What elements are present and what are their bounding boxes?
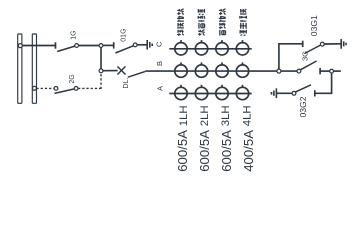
CT 1LH phase C bbox=[175, 43, 187, 55]
earthing switch 03G2 contact bar bbox=[314, 90, 316, 96]
phase line C bbox=[169, 48, 251, 50]
CT 2LH phase A bbox=[195, 87, 207, 99]
disconnector 3G hinge circle bbox=[297, 69, 301, 73]
column label (celiang biaoji) col4 bbox=[240, 9, 247, 36]
wire node to DL bbox=[103, 70, 118, 72]
ground symbol (03G1) bbox=[340, 39, 342, 49]
wire junction to 3G bbox=[281, 70, 297, 72]
breaker DL blade bbox=[128, 71, 146, 77]
disconnector 2G left circle bbox=[54, 87, 58, 91]
svg-text:B: B bbox=[155, 61, 164, 66]
svg-text:600/5A: 600/5A bbox=[219, 130, 234, 172]
svg-text:C: C bbox=[155, 41, 164, 47]
CT 1LH phase B bbox=[175, 65, 187, 77]
svg-text:3LH: 3LH bbox=[220, 105, 232, 126]
earthing switch 03G1 hinge circle bbox=[320, 42, 324, 46]
svg-text:A: A bbox=[156, 86, 165, 91]
disconnector 2G blade bbox=[55, 89, 75, 94]
CT 1LH phase A bbox=[175, 87, 187, 99]
wire ground to 03G2 bbox=[277, 92, 293, 94]
svg-text:1LH: 1LH bbox=[178, 105, 190, 126]
phase line B bbox=[145, 70, 277, 72]
svg-text:2LH: 2LH bbox=[199, 105, 211, 126]
earthing switch 01G blade bbox=[115, 46, 133, 53]
svg-text:4LH: 4LH bbox=[241, 105, 253, 126]
wire 3G to line exit node bbox=[320, 70, 330, 72]
CT 4LH phase A bbox=[236, 87, 248, 99]
line exit stub bbox=[334, 70, 341, 72]
CT 2LH phase C bbox=[195, 43, 207, 55]
disconnector 1G hinge circle bbox=[75, 44, 79, 48]
column label (muxian baohu) col3 bbox=[219, 9, 226, 36]
node on busbar II bbox=[32, 86, 36, 90]
disconnector 1G contact bar bbox=[55, 42, 57, 48]
CT 3LH phase A bbox=[216, 87, 228, 99]
junction node circle bbox=[99, 44, 103, 48]
wire junction down to breaker node bbox=[100, 47, 102, 69]
dashed wire 2G to corner bbox=[78, 87, 102, 89]
wire 03G1 to ground bbox=[324, 43, 341, 45]
wire 01G to ground bbox=[137, 44, 147, 46]
disconnector 1G blade bbox=[57, 46, 75, 52]
svg-text:03G1: 03G1 bbox=[309, 15, 319, 36]
node circle above DL bbox=[99, 69, 103, 73]
svg-text:2G: 2G bbox=[69, 74, 76, 83]
earthing switch 03G1 contact bar bbox=[302, 41, 304, 47]
wire junction to 01G bbox=[103, 44, 114, 46]
earthing switch 03G2 hinge circle bbox=[292, 91, 296, 95]
column label (guzhang lubo) col2 bbox=[198, 9, 205, 36]
wire busbar I to 1G bbox=[21, 45, 56, 47]
phase line A bbox=[169, 93, 251, 95]
earthing switch 01G contact bar bbox=[113, 42, 115, 48]
svg-text:600/5A: 600/5A bbox=[197, 130, 212, 172]
svg-text:03G2: 03G2 bbox=[298, 96, 308, 117]
CT 3LH phase B bbox=[216, 65, 228, 77]
svg-text:600/5A: 600/5A bbox=[175, 130, 190, 172]
busbar II bbox=[32, 34, 36, 103]
ground symbol (03G2) bbox=[275, 88, 277, 98]
disconnector 2G right circle bbox=[74, 87, 78, 91]
dashed wire corner up to DL node bbox=[100, 73, 102, 89]
earthing switch 03G1 blade bbox=[304, 45, 320, 54]
disconnector 3G blade (open) bbox=[300, 61, 316, 70]
svg-text:DL.: DL. bbox=[123, 78, 130, 89]
svg-text:01G: 01G bbox=[121, 28, 128, 41]
line exit node circle bbox=[330, 69, 334, 73]
busbar I bbox=[18, 34, 22, 103]
node on busbar I bbox=[18, 44, 22, 48]
junction node on B line bbox=[277, 69, 281, 73]
CT 2LH phase B bbox=[195, 65, 207, 77]
CT 4LH phase B bbox=[236, 65, 248, 77]
svg-text:1G: 1G bbox=[71, 30, 78, 39]
breaker DL cross bbox=[117, 66, 125, 74]
wire B junction up to 03G1 branch bbox=[279, 44, 303, 69]
earthing switch 03G2 blade (open) bbox=[296, 85, 312, 92]
ground symbol (line side) bbox=[146, 40, 148, 50]
disconnector 3G contact bar bbox=[319, 68, 321, 74]
CT 3LH phase C bbox=[216, 43, 228, 55]
wire 1G to junction bbox=[79, 45, 100, 47]
column label (xianlu baohu) col1 bbox=[177, 9, 184, 36]
earthing switch 01G hinge circle bbox=[133, 43, 137, 47]
svg-text:400/5A: 400/5A bbox=[241, 130, 256, 172]
dashed wire busbar II to 2G bbox=[36, 87, 54, 89]
wire 03G2 to line exit node bbox=[315, 73, 332, 93]
CT 4LH phase C bbox=[236, 43, 248, 55]
CT circles grid bbox=[175, 40, 249, 100]
